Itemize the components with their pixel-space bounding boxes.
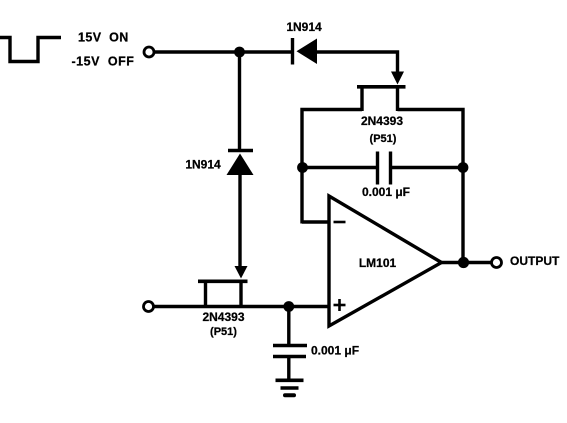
svg-text:1N914: 1N914 <box>286 20 322 34</box>
svg-text:(P51): (P51) <box>210 326 237 338</box>
svg-text:1N914: 1N914 <box>185 158 221 172</box>
svg-text:2N4393: 2N4393 <box>361 114 403 128</box>
node feedback-left (dot) <box>297 162 308 173</box>
input square-wave symbol <box>0 38 61 62</box>
wire bottom input to non-inverting input <box>154 305 329 308</box>
op-amp U1 LM101 <box>329 196 442 326</box>
wire to inverting input <box>302 220 329 223</box>
node feedback-right (dot) <box>458 162 469 173</box>
capacitor C1 0.001uF (feedback) <box>302 152 463 185</box>
svg-text:(P51): (P51) <box>370 133 397 145</box>
svg-text:0.001 μF: 0.001 μF <box>362 185 410 199</box>
wire Q1 source to left loop <box>302 110 362 224</box>
node output (junction dot) <box>458 257 469 268</box>
svg-text:-15V OFF: -15V OFF <box>72 55 135 69</box>
ground <box>276 380 304 395</box>
wire input to node A <box>155 50 293 53</box>
svg-text:15V ON: 15V ON <box>78 31 129 45</box>
transistor Q2 2N4393 (bottom JFET) <box>198 266 248 308</box>
node A (junction dot) <box>234 47 245 58</box>
svg-text:2N4393: 2N4393 <box>202 310 244 324</box>
node B (junction dot) <box>283 301 294 312</box>
wire op-amp output <box>442 261 492 264</box>
input terminal (top) <box>144 47 154 57</box>
diode D2 1N914 (vertical, points up) <box>227 52 254 267</box>
svg-text:0.001 μF: 0.001 μF <box>311 344 359 358</box>
diode D1 1N914 (points left) <box>293 38 318 65</box>
transistor Q1 2N4393 (top JFET) <box>357 72 406 112</box>
svg-text:OUTPUT: OUTPUT <box>510 254 560 268</box>
input terminal (bottom) <box>144 302 154 312</box>
wire diode to Q1 gate <box>317 52 398 72</box>
svg-text:LM101: LM101 <box>359 256 397 270</box>
wire Q1 drain to right loop <box>398 110 464 263</box>
capacitor C2 0.001uF (to ground) <box>273 307 307 381</box>
output terminal <box>492 258 502 268</box>
